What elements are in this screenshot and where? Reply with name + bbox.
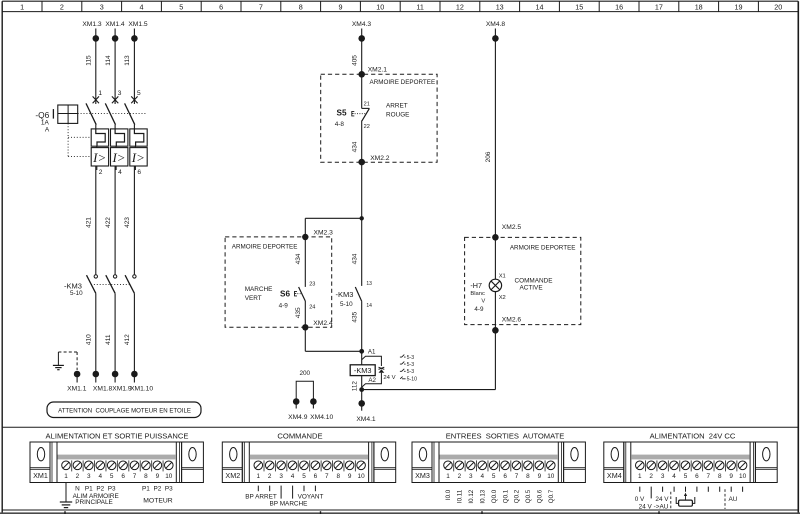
svg-text:XM2.5: XM2.5 xyxy=(502,224,522,231)
svg-text:1: 1 xyxy=(98,90,102,97)
svg-text:13: 13 xyxy=(496,3,504,12)
title block strip bottom xyxy=(0,511,800,514)
svg-text:4-9: 4-9 xyxy=(279,303,289,310)
svg-text:4: 4 xyxy=(118,169,122,176)
svg-text:ARMOIRE DEPORTEE: ARMOIRE DEPORTEE xyxy=(510,244,576,251)
svg-text:XM1.3: XM1.3 xyxy=(82,21,102,28)
svg-text:P3: P3 xyxy=(165,486,173,493)
wire 112 / node xyxy=(351,381,364,392)
svg-text:XM1.8: XM1.8 xyxy=(93,385,113,392)
XM2 annotation texts xyxy=(245,493,323,507)
svg-text:Q0.2: Q0.2 xyxy=(514,489,521,503)
svg-text:I0.0: I0.0 xyxy=(445,489,452,500)
terminal XM2.6 xyxy=(492,317,521,334)
svg-text:5: 5 xyxy=(137,90,141,97)
svg-text:-KM3: -KM3 xyxy=(64,281,82,290)
svg-text:112: 112 xyxy=(351,381,358,392)
svg-text:3: 3 xyxy=(118,90,122,97)
ruler band xyxy=(2,1,798,11)
XM4 shunt link symbol xyxy=(676,493,695,507)
wire 435 (branch) xyxy=(295,301,305,327)
svg-text:114: 114 xyxy=(105,55,112,66)
breaker Q6 pole contact 3 xyxy=(105,90,121,129)
pole output 6 / wire 423 xyxy=(124,166,141,274)
wire XM2.2 down to coil branch xyxy=(361,162,363,351)
terminal XM4.9 xyxy=(288,398,308,421)
svg-text:BP MARCHE: BP MARCHE xyxy=(270,501,308,508)
lamp return wire xyxy=(494,330,496,389)
svg-text:14: 14 xyxy=(366,303,372,309)
svg-text:5-3: 5-3 xyxy=(407,362,415,368)
svg-text:I0.13: I0.13 xyxy=(480,489,487,503)
pushbutton S6 NO contact xyxy=(299,281,316,310)
svg-text:17: 17 xyxy=(655,3,663,12)
svg-text:XM2.6: XM2.6 xyxy=(502,317,522,324)
terminal strip XM4 xyxy=(604,442,777,483)
svg-text:BP ARRET: BP ARRET xyxy=(245,493,277,500)
breaker Q6 handle xyxy=(53,105,77,123)
svg-text:6: 6 xyxy=(219,3,223,12)
svg-text:5-10: 5-10 xyxy=(407,377,417,383)
svg-text:PRINCIPALE: PRINCIPALE xyxy=(75,499,113,506)
svg-text:411: 411 xyxy=(105,334,112,345)
svg-text:421: 421 xyxy=(86,217,93,228)
remote cabinet box H7 xyxy=(465,237,581,324)
S6 actuator xyxy=(295,291,302,296)
svg-text:P3: P3 xyxy=(108,486,116,493)
svg-text:-KM3: -KM3 xyxy=(336,290,354,299)
svg-text:XM1.10: XM1.10 xyxy=(130,385,153,392)
svg-text:1: 1 xyxy=(20,3,24,12)
terminal XM4.3 xyxy=(352,21,372,42)
svg-text:434: 434 xyxy=(295,253,302,264)
terminal XM2.2 xyxy=(358,155,389,165)
warning note box xyxy=(47,402,201,418)
H7 label xyxy=(470,281,485,313)
wire 411 xyxy=(105,293,115,371)
coil KM3 xyxy=(350,351,375,375)
svg-text:405: 405 xyxy=(352,55,359,66)
svg-text:434: 434 xyxy=(352,253,359,264)
svg-text:XM4: XM4 xyxy=(607,471,622,480)
breaker Q6 pole contact 5 xyxy=(125,90,141,129)
svg-text:24 V: 24 V xyxy=(655,496,669,503)
terminal XM4.1 xyxy=(356,400,376,423)
svg-text:7: 7 xyxy=(259,3,263,12)
branch wire to XM2.3 xyxy=(305,218,361,237)
contactor KM3 power label xyxy=(64,281,83,297)
svg-text:VOYANT: VOYANT xyxy=(298,493,324,500)
svg-text:Q0.5: Q0.5 xyxy=(525,489,532,503)
svg-text:MOTEUR: MOTEUR xyxy=(143,497,173,504)
wire 206 xyxy=(485,29,495,238)
contactor KM3 power contact pole 1 xyxy=(87,275,98,294)
svg-text:XM2.1: XM2.1 xyxy=(368,67,388,74)
svg-text:15: 15 xyxy=(575,3,583,12)
terminal XM1.3 xyxy=(82,21,102,42)
svg-text:A1: A1 xyxy=(368,348,376,355)
svg-text:410: 410 xyxy=(86,334,93,345)
XM2 wiring ticks xyxy=(258,486,315,499)
svg-text:P2: P2 xyxy=(153,486,161,493)
svg-text:5-10: 5-10 xyxy=(340,301,353,308)
Q6 thermal overload element pole 2 xyxy=(111,129,128,146)
svg-text:XM1.1: XM1.1 xyxy=(67,385,87,392)
svg-text:422: 422 xyxy=(105,217,112,228)
svg-text:2: 2 xyxy=(60,3,64,12)
svg-text:Q0.6: Q0.6 xyxy=(537,489,544,503)
wire 115 xyxy=(86,29,96,105)
svg-text:AU: AU xyxy=(729,496,738,503)
svg-text:XM1.5: XM1.5 xyxy=(128,21,148,28)
svg-text:I>: I> xyxy=(111,150,125,165)
svg-text:X2: X2 xyxy=(499,295,506,301)
svg-text:-H7: -H7 xyxy=(470,281,482,290)
svg-text:435: 435 xyxy=(295,307,302,318)
Q6 thermal overload element pole 3 xyxy=(130,129,147,146)
svg-text:ALIMENTATION 24V CC: ALIMENTATION 24V CC xyxy=(650,431,736,440)
svg-text:XM4.1: XM4.1 xyxy=(356,416,376,423)
svg-text:23: 23 xyxy=(309,281,315,287)
svg-text:2: 2 xyxy=(99,169,103,176)
svg-text:18: 18 xyxy=(695,3,703,12)
svg-text:A: A xyxy=(45,126,50,133)
svg-text:XM4.3: XM4.3 xyxy=(352,21,372,28)
svg-text:4-9: 4-9 xyxy=(474,306,484,313)
pole output 4 / wire 422 xyxy=(105,166,122,274)
lamp pins X1 X2 xyxy=(499,273,506,301)
svg-text:XM1.4: XM1.4 xyxy=(105,21,125,28)
KM3 auxiliary contact 13-14 xyxy=(352,253,373,309)
XM1 conductor labels xyxy=(75,486,173,493)
terminal XM4.8 xyxy=(486,21,506,42)
svg-text:ENTREES SORTIES AUTOMATE: ENTREES SORTIES AUTOMATE xyxy=(446,431,565,440)
svg-text:XM2.2: XM2.2 xyxy=(370,155,390,162)
svg-text:Q0.1: Q0.1 xyxy=(502,489,509,503)
XM1 annotation texts xyxy=(73,493,173,506)
XM1 ground symbol xyxy=(60,483,72,508)
svg-text:113: 113 xyxy=(124,55,131,66)
terminal XM2.4 xyxy=(302,320,333,330)
svg-text:XM4.10: XM4.10 xyxy=(310,414,333,421)
svg-text:ARRET: ARRET xyxy=(386,103,408,110)
Q6 mechanical link dotted xyxy=(68,113,145,156)
junction node xyxy=(360,216,364,220)
svg-text:24 V: 24 V xyxy=(383,375,395,381)
svg-text:14: 14 xyxy=(536,3,544,12)
svg-text:16: 16 xyxy=(615,3,623,12)
svg-text:P1: P1 xyxy=(85,486,93,493)
terminal XM1.4 xyxy=(105,21,125,42)
svg-text:24 V ->AU: 24 V ->AU xyxy=(639,503,669,510)
svg-text:20: 20 xyxy=(774,3,782,12)
svg-text:S5: S5 xyxy=(337,109,347,118)
node A1 xyxy=(359,348,376,355)
svg-text:206: 206 xyxy=(485,151,492,162)
terminal strip XM1 xyxy=(30,442,203,483)
svg-text:Q0.7: Q0.7 xyxy=(548,489,555,503)
wire 114 xyxy=(105,29,115,105)
svg-text:I>: I> xyxy=(92,150,106,165)
KM3 mechanical link dotted xyxy=(91,283,130,285)
svg-text:Q0.0: Q0.0 xyxy=(491,489,498,503)
svg-text:XM4.8: XM4.8 xyxy=(486,21,506,28)
ruler numbers xyxy=(20,3,782,12)
svg-text:I>: I> xyxy=(131,150,145,165)
jumper wire 200 xyxy=(296,370,313,401)
terminals XM1.8 XM1.9 XM1.10 xyxy=(93,371,154,393)
svg-text:434: 434 xyxy=(352,141,359,152)
svg-text:11: 11 xyxy=(416,3,423,12)
svg-text:P2: P2 xyxy=(96,486,104,493)
svg-text:P1: P1 xyxy=(142,486,150,493)
wire 412 xyxy=(124,293,134,371)
svg-text:X1: X1 xyxy=(499,273,506,279)
pole output 2 / wire 421 xyxy=(86,166,103,274)
svg-text:-KM3: -KM3 xyxy=(354,366,372,375)
svg-text:4-8: 4-8 xyxy=(335,121,345,128)
svg-text:N: N xyxy=(75,486,80,493)
svg-text:I0.11: I0.11 xyxy=(457,489,464,503)
terminal XM2.3 xyxy=(302,229,333,240)
svg-text:22: 22 xyxy=(364,124,370,130)
svg-text:5-10: 5-10 xyxy=(70,290,83,297)
suppressor diode branch xyxy=(362,356,396,387)
wire to lamp return xyxy=(362,389,496,391)
svg-text:ACTIVE: ACTIVE xyxy=(520,285,543,292)
terminal strip XM2 xyxy=(222,442,395,483)
remote cabinet box S5 xyxy=(321,74,437,162)
svg-text:21: 21 xyxy=(364,102,370,108)
coil terminal A2 xyxy=(362,376,377,404)
svg-text:200: 200 xyxy=(299,370,310,377)
svg-text:ARMOIRE DEPORTEE: ARMOIRE DEPORTEE xyxy=(232,243,298,250)
terminal XM2.5 xyxy=(492,224,521,240)
svg-text:XM1.9: XM1.9 xyxy=(112,385,132,392)
svg-text:9: 9 xyxy=(339,3,343,12)
svg-text:V: V xyxy=(481,298,485,304)
contactor KM3 power contact pole 3 xyxy=(125,275,136,294)
svg-text:3: 3 xyxy=(100,3,104,12)
svg-text:ROUGE: ROUGE xyxy=(386,111,409,118)
contactor KM3 power contact pole 2 xyxy=(106,275,117,294)
terminal XM4.10 xyxy=(310,398,333,421)
svg-text:XM2.4: XM2.4 xyxy=(313,320,333,327)
svg-text:XM2.3: XM2.3 xyxy=(314,229,334,236)
svg-text:ARMOIRE DEPORTEE: ARMOIRE DEPORTEE xyxy=(370,79,436,86)
svg-text:5-3: 5-3 xyxy=(407,369,415,375)
svg-text:412: 412 xyxy=(124,334,131,345)
remote cabinet box S6 xyxy=(225,237,332,327)
pushbutton S5 NC contact xyxy=(362,74,370,162)
svg-text:XM4.9: XM4.9 xyxy=(288,414,308,421)
XM4 dashed separators xyxy=(671,489,725,509)
S6 function text xyxy=(245,286,273,302)
Q6 magnetic trip I> pole 1 xyxy=(91,146,108,170)
svg-text:MARCHE: MARCHE xyxy=(245,286,273,293)
svg-text:423: 423 xyxy=(124,217,131,228)
svg-text:12: 12 xyxy=(456,3,464,12)
svg-text:Blanc: Blanc xyxy=(470,291,485,297)
svg-text:6: 6 xyxy=(137,169,141,176)
svg-text:0 V: 0 V xyxy=(635,496,645,503)
svg-text:A2: A2 xyxy=(368,377,376,384)
svg-text:4: 4 xyxy=(140,3,144,12)
lamp H7 xyxy=(489,237,501,330)
ground symbol xyxy=(53,352,64,370)
svg-text:ALIMENTATION ET SORTIE PUISSAN: ALIMENTATION ET SORTIE PUISSANCE xyxy=(46,431,189,440)
terminal XM1.5 xyxy=(128,21,148,42)
Q6 magnetic trip I> pole 3 xyxy=(130,146,147,170)
wire 434 (branch) xyxy=(295,237,305,287)
svg-text:115: 115 xyxy=(86,55,93,66)
S6 label xyxy=(279,289,291,309)
terminal XM2.1 xyxy=(358,67,387,78)
svg-text:5: 5 xyxy=(179,3,183,12)
H7 function text xyxy=(515,277,553,291)
svg-text:ATTENTION COUPLAGE MOTEUR EN: ATTENTION COUPLAGE MOTEUR EN ETOILE xyxy=(58,407,191,414)
KM3 aux label xyxy=(336,290,354,308)
svg-text:COMMANDE: COMMANDE xyxy=(515,277,553,284)
dashed earth wire to XM1.1 xyxy=(58,352,77,370)
svg-text:10: 10 xyxy=(376,3,384,12)
terminal strip XM3 xyxy=(412,442,585,483)
svg-text:XM3: XM3 xyxy=(415,471,430,480)
breaker Q6 pole contact 1 xyxy=(86,90,102,129)
svg-text:24: 24 xyxy=(309,305,315,311)
branch wire to coil node xyxy=(305,327,361,351)
svg-text:XM1: XM1 xyxy=(33,471,48,480)
Q6 magnetic trip I> pole 2 xyxy=(111,146,128,170)
wire 405 xyxy=(352,29,362,75)
svg-text:13: 13 xyxy=(366,281,372,287)
svg-text:5-3: 5-3 xyxy=(407,355,415,361)
terminal XM1.1 xyxy=(67,371,87,393)
S5 function text xyxy=(386,103,409,119)
contact cross-reference list xyxy=(400,355,417,383)
svg-text:1A: 1A xyxy=(41,119,50,126)
svg-text:I0.12: I0.12 xyxy=(468,489,475,503)
wire 410 xyxy=(86,293,96,371)
XM4 wiring ticks xyxy=(640,487,743,499)
S5 label xyxy=(335,109,347,128)
svg-text:8: 8 xyxy=(299,3,303,12)
XM4 annotation texts xyxy=(635,496,738,510)
svg-text:XM2: XM2 xyxy=(225,471,240,480)
svg-text:VERT: VERT xyxy=(245,295,262,302)
svg-text:COMMANDE: COMMANDE xyxy=(277,431,322,440)
svg-text:435: 435 xyxy=(352,311,359,322)
wire 113 xyxy=(124,29,134,105)
Q6 thermal overload element pole 1 xyxy=(91,129,108,146)
svg-text:S6: S6 xyxy=(280,289,290,298)
breaker Q6 label xyxy=(35,110,50,133)
S5 actuator xyxy=(352,111,365,116)
XM3 I/O labels xyxy=(445,489,555,503)
svg-text:19: 19 xyxy=(735,3,743,12)
